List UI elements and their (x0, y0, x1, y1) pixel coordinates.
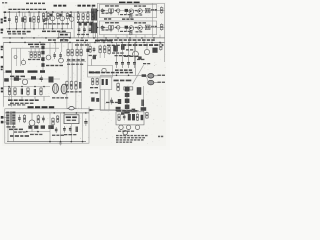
note text line2 (116, 137, 145, 138)
transistor Q7 chB driver (117, 26, 120, 29)
capacitor C5 (78, 27, 81, 34)
capacitor C38 (91, 97, 94, 101)
diode pack D3 chA (145, 8, 150, 13)
wire psu out (88, 107, 90, 111)
label rm2 (126, 49, 133, 50)
label POWER AMP (119, 2, 140, 4)
wire supply rail1 (3, 86, 50, 88)
label PHONO EQ (78, 5, 96, 7)
label psu left (9, 129, 23, 131)
label interbox l2 (122, 18, 134, 20)
capacitor C17 (69, 14, 71, 17)
capacitor C3 (43, 17, 45, 22)
label chA spk (151, 9, 157, 11)
transistor Q8b (14, 56, 17, 59)
resistor R12 (87, 13, 89, 21)
resistor R2 (24, 16, 26, 24)
resistor R7 (47, 12, 49, 20)
capacitor C29b (86, 49, 89, 52)
capacitor C6 (83, 27, 86, 34)
label tone vals (67, 59, 85, 61)
label POWER SUPPLY UNIT (28, 106, 55, 108)
capacitor C19 (84, 22, 87, 25)
diode pack D4 chB (145, 25, 150, 30)
resistor R91 (136, 113, 138, 121)
box protection (116, 112, 144, 125)
capacitor C55 (76, 127, 78, 133)
wire c36 stubs (101, 90, 110, 111)
label ctrl mid (10, 76, 25, 78)
resistor R83 (57, 115, 59, 123)
diode chain DD1 (125, 87, 130, 92)
label chA inner (102, 13, 113, 14)
page number (158, 136, 163, 138)
transistor Q1 (50, 11, 55, 21)
label cap bank (115, 69, 132, 71)
wire t1 leads (8, 124, 13, 141)
regulator U1 (64, 115, 79, 124)
resistor R40 emitter (160, 6, 163, 14)
wire chB signal (96, 27, 157, 29)
capacitor C21 (59, 52, 62, 59)
wire diagonal (133, 65, 144, 84)
wire psu v3 (82, 113, 84, 142)
node spk junction (142, 74, 146, 77)
capacitor C29c (93, 56, 96, 59)
box control amp (11, 48, 59, 107)
resistor R69 (89, 46, 91, 54)
capacitor chain CC2 (41, 51, 44, 55)
transformer T1 primary (6, 112, 9, 125)
wire ctrl wire1 (28, 50, 44, 52)
label eq vals (44, 23, 69, 24)
connector hang (61, 39, 68, 42)
resistor R4 (37, 16, 39, 24)
wire supply rail2 (3, 96, 50, 98)
label supply row (8, 99, 39, 101)
note text line1 (116, 135, 148, 136)
capacitor C45 (116, 107, 121, 111)
transistor Q12 (133, 42, 139, 56)
wire psu bottom rail (7, 141, 86, 143)
label underband l1 (48, 39, 56, 41)
wire reg down (70, 124, 72, 142)
resistor R76 (92, 78, 94, 86)
wire supply drops (9, 97, 44, 102)
capacitor chain CC4 (41, 63, 44, 67)
wire pa divider (152, 3, 154, 38)
label under ellipse (52, 97, 68, 98)
wire strip link (91, 59, 93, 66)
label bottom vals (106, 102, 119, 103)
capacitor C33 (102, 68, 106, 72)
resistor R63 rect (70, 81, 72, 91)
wire leads down (16, 23, 43, 29)
diode chain DD3 (125, 99, 130, 103)
transistor Q3 (69, 12, 74, 21)
note text line4 (116, 142, 132, 143)
capacitor C22b dark (49, 77, 54, 83)
label chA qvals (136, 14, 143, 15)
capacitor C50 (18, 115, 21, 123)
wire left border (2, 42, 4, 106)
transistor Q2 (60, 12, 65, 21)
label chB spk (151, 26, 157, 28)
capacitor C22 (4, 78, 9, 81)
label psu left3 (14, 131, 26, 132)
resistor R54 (71, 48, 73, 56)
label rm4 (143, 63, 150, 64)
capacitor C54 (69, 126, 72, 133)
capacitor C15 (50, 14, 52, 17)
transistor Q9 chB output1 (129, 26, 134, 31)
capacitor C8 electrolytic (91, 6, 94, 21)
wire chA out (157, 10, 165, 12)
transistor Q22 (135, 125, 139, 130)
wire chA stubs (111, 12, 132, 16)
transistor Q6 chA output2 (138, 9, 143, 14)
wire tape bus (6, 28, 73, 30)
capacitor C0 (8, 17, 11, 23)
wire drop d1 (9, 12, 39, 17)
resistor R30 chA (130, 14, 132, 19)
label EQUALIZER AMP (54, 5, 67, 7)
resistor R31 chB (130, 30, 132, 35)
label interbox l1 (104, 18, 111, 20)
resistor R20 chA (109, 9, 114, 12)
transistor Q21 (126, 125, 130, 130)
scan shade (2, 2, 166, 146)
capacitor C36 (110, 98, 113, 105)
wire comp columns (9, 12, 71, 29)
jack J4 (1, 46, 3, 50)
label phones l2 (91, 92, 99, 93)
label chB inner (102, 29, 113, 30)
wire chB stubs (111, 29, 132, 33)
arrow node (90, 109, 96, 112)
label rm1 (112, 52, 124, 53)
plug AC (1, 116, 6, 123)
label strip vals (89, 55, 97, 56)
thermal switch TH1 (29, 113, 35, 126)
label input row (9, 9, 47, 10)
label T1 (7, 126, 16, 127)
label supply row2 (10, 103, 33, 104)
ground G2 (59, 143, 62, 145)
resistor R51 (34, 51, 36, 58)
capacitor C35 bar (106, 79, 108, 85)
label ctrl pots (6, 70, 46, 73)
resistor R71 (103, 45, 106, 54)
resistor R56 (80, 48, 82, 56)
fuse F1 (67, 107, 77, 110)
capacitor chain CC1 (41, 46, 44, 49)
capacitor C34 bar (102, 79, 104, 85)
resistor R55 (76, 48, 78, 56)
paper background (0, 0, 170, 150)
diode D10 (41, 125, 45, 128)
resistor R62 rect (66, 81, 68, 91)
resistor R52 (38, 51, 40, 58)
jack J1 line in (4, 11, 7, 21)
label psu reg vals (64, 134, 76, 135)
resistor R3 (33, 16, 35, 24)
capacitor C20 (53, 52, 56, 59)
resistor R21 chB (109, 26, 114, 29)
label PHONES LEVEL (114, 80, 132, 82)
capacitor C31 (121, 44, 125, 50)
wire chB out (157, 26, 165, 28)
resistor R59 (14, 87, 16, 96)
capacitor C25 main filter (53, 84, 59, 94)
label underband l2 (60, 39, 68, 41)
capacitor C2 (29, 17, 31, 22)
capacitor C10 electrolytic (91, 23, 94, 33)
wire phono divider (73, 12, 75, 38)
label prot vals (124, 56, 139, 57)
capacitor bank C42 (127, 59, 130, 69)
capacitor C4 (45, 16, 48, 22)
label prot top (117, 110, 138, 111)
terminal SP2 (146, 75, 157, 85)
transistor Q9 (46, 55, 51, 60)
label phones l1 (90, 87, 98, 88)
capacitor C29 (93, 47, 96, 53)
diode D21 (132, 114, 135, 120)
capacitor C30 (113, 45, 118, 51)
label phono vals (77, 22, 94, 23)
resistor R1 (15, 16, 17, 24)
transformer T1 core (10, 111, 11, 124)
label prot q row (118, 131, 134, 132)
transistor Q4 chA driver (117, 9, 120, 12)
wire ctrl mid (10, 78, 60, 80)
wire ctrl right border (87, 42, 89, 65)
jack J6 (1, 66, 3, 70)
jack J5 (1, 56, 3, 58)
diode D2 bias chB (125, 26, 128, 29)
label psu mid2 (52, 135, 64, 136)
label tape row (7, 31, 31, 33)
transistor Q8 (21, 59, 25, 65)
resistor R53 (67, 48, 69, 56)
diode D22 (141, 115, 144, 120)
label chA lower (120, 14, 131, 15)
capacitor C1 (21, 17, 23, 22)
label chB qvals (136, 31, 143, 32)
label mid rail right (122, 44, 163, 46)
label rm3 (137, 59, 144, 60)
wire power right edge (164, 3, 166, 62)
wire power top border (97, 2, 164, 4)
diode D11 (48, 125, 53, 129)
transformer T1 secondary (12, 112, 15, 125)
wire th1 lead (31, 126, 33, 132)
wire bottom rail (3, 37, 166, 39)
resistor R11 (82, 13, 84, 21)
label SP right (158, 75, 166, 83)
diode chain DD4 (125, 105, 130, 109)
label mid rail ctr (75, 44, 89, 45)
wire psu v2 (60, 113, 62, 142)
transistor Q10 chB output2 (138, 26, 143, 31)
resistor R80 (23, 114, 25, 123)
resistor R81 (37, 115, 39, 124)
label spk line row (92, 72, 133, 74)
blob row bottom (121, 109, 135, 115)
label corner note (2, 2, 7, 3)
resistor R6 (42, 12, 44, 20)
resistor R9 (66, 12, 68, 19)
jack J3 (1, 87, 3, 92)
diode D12 (28, 126, 32, 129)
capacitor C26 main filter (61, 84, 67, 94)
capacitor C27 (21, 89, 23, 95)
box psu (5, 109, 89, 143)
resistor R58 (8, 87, 10, 96)
wire tone down (68, 58, 81, 82)
wire phono stubs (79, 19, 94, 26)
scan speckle (3, 3, 165, 144)
capacitor C13 chB (101, 25, 104, 30)
wire bottom link (100, 90, 139, 111)
resistor R60 (27, 87, 29, 96)
jack J2 line in (1, 18, 3, 23)
lamp LP1 (123, 131, 127, 138)
label tape row 2 (8, 33, 26, 34)
wire q leads (53, 21, 72, 29)
capacitor C24 (40, 76, 43, 83)
switch S1 eq select (59, 33, 71, 38)
capacitor C18 (79, 22, 82, 25)
wire phono columns (79, 12, 94, 38)
capacitor C39 (96, 98, 99, 102)
transistor Q20 (119, 125, 123, 130)
transistor Q10 (59, 58, 64, 63)
resistor R64 rect (75, 81, 77, 91)
capacitor C56 (55, 127, 58, 133)
label chA values (105, 5, 119, 6)
resistor R13 (92, 13, 94, 21)
capacitor bank C43 (133, 59, 136, 69)
ground G1 (62, 38, 65, 41)
resistor R50 (30, 51, 32, 58)
capacitor bank C40 (115, 59, 118, 69)
jack J2b (1, 29, 4, 34)
resistor R8 (57, 12, 59, 19)
wire psu mid bus (20, 131, 50, 133)
resistor R72 (108, 46, 111, 55)
transistor Q11 (22, 79, 27, 84)
label ctrl vals (28, 59, 44, 60)
wire mid drop (143, 86, 145, 112)
wire bank drops (117, 42, 135, 58)
box power amp ch A (99, 4, 156, 17)
resistor R61 (40, 87, 42, 96)
capacitor C16 (59, 14, 61, 17)
box power amp ch B (99, 21, 156, 35)
capacitor C11 electrolytic (94, 23, 97, 38)
diode D20 (128, 114, 131, 120)
resistor R82 (52, 117, 54, 126)
capacitor C32b (138, 56, 141, 59)
wire speaker line (100, 75, 146, 77)
wire ctrl faint (17, 48, 21, 66)
label supply row3 (8, 104, 25, 105)
capacitor C60 (123, 114, 126, 121)
diode chain DD2 (125, 93, 130, 97)
capacitor C32 (152, 48, 157, 53)
label phono row2 (77, 34, 89, 35)
terminal SP1 (148, 74, 158, 79)
capacitor C53 (63, 126, 66, 133)
wire chA signal (96, 10, 157, 12)
label psu left2 (10, 135, 29, 137)
label psu mid (30, 134, 42, 135)
label tone vals2 (67, 64, 83, 65)
wire prot feed (89, 110, 132, 112)
capacitor C19b (89, 22, 92, 25)
transistor Q5 chA output1 (129, 9, 134, 14)
label STEREO CONTROL (28, 44, 45, 48)
capacitor bank C41 (121, 59, 124, 69)
resistor R73 (160, 43, 162, 51)
box tuner (88, 66, 113, 78)
wire pa drops (104, 35, 160, 38)
note text line3 (116, 139, 144, 140)
label chB lower (120, 31, 131, 32)
wire chain stubs (126, 87, 128, 114)
label mid rail ctr2 (107, 45, 120, 46)
capacitor chain CC3 (41, 57, 44, 61)
label chB values (105, 22, 119, 23)
label underrail right (100, 39, 155, 41)
resistor R75 (124, 87, 133, 90)
capacitor C12 chA (101, 8, 104, 13)
label underband l3 (76, 40, 88, 42)
label tuner (89, 71, 100, 73)
label eq row (42, 31, 66, 32)
capacitor C28 (34, 89, 36, 95)
capacitor C52 (84, 119, 87, 127)
capacitor C44 (141, 100, 147, 111)
wire tone drops (68, 42, 81, 49)
wire psu v1 (49, 113, 51, 142)
resistor R92 (146, 112, 149, 119)
diode D13 (34, 125, 38, 128)
capacitor C7 (89, 27, 92, 34)
capacitor C23 (14, 77, 19, 81)
wire rect down (67, 90, 81, 109)
label chB out values (134, 22, 146, 23)
wire mid rail (3, 42, 164, 44)
resistor R57 (31, 76, 36, 79)
capacitor C9 electrolytic (94, 9, 97, 21)
relay RY1 (137, 88, 141, 95)
resistor R41 emitter (160, 23, 163, 31)
label chA out values (134, 5, 146, 6)
capacitor C37 (118, 99, 121, 104)
label bank vals (115, 55, 131, 56)
wire section divider (96, 3, 98, 42)
transistor Q13 (144, 42, 149, 54)
resistor R74 (117, 82, 120, 91)
resistor R10 (77, 13, 79, 21)
capacitor C51 (42, 116, 45, 123)
label mid rail left (95, 40, 112, 42)
wire q12 lead (135, 57, 137, 75)
wire input rail (6, 11, 98, 13)
